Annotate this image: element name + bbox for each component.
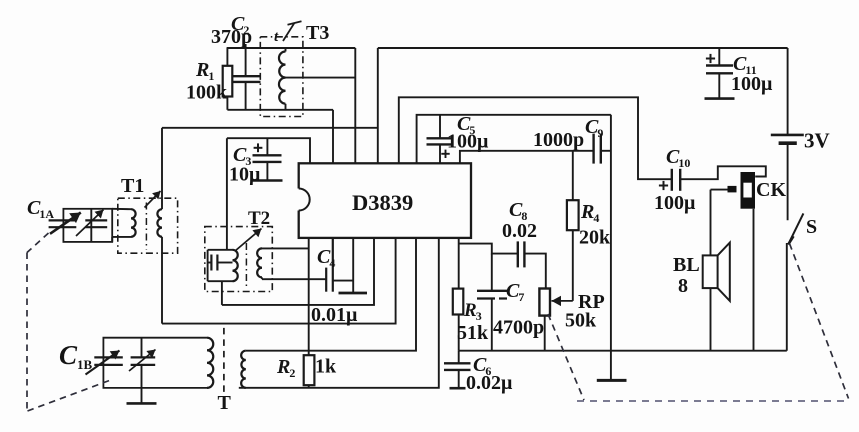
capacitor C10 polarity + bbox=[659, 181, 668, 190]
label C8 bbox=[509, 199, 527, 223]
capacitor C7 bottom lead bbox=[491, 299, 493, 351]
transformer T2 right winding bbox=[257, 248, 262, 277]
wire node vertical right (pin6 net to ground) bbox=[610, 115, 612, 351]
capacitor C3 bottom lead bbox=[266, 162, 268, 180]
transformer T2 right winding bottom stub bbox=[261, 277, 263, 279]
label C3 bbox=[233, 144, 251, 168]
svg-text:BL: BL bbox=[673, 254, 700, 276]
label 20k value of R4 bbox=[579, 227, 611, 249]
svg-text:10μ: 10μ bbox=[229, 164, 261, 186]
battery BT 3V top lead bbox=[787, 48, 789, 134]
wire T1 secondary top vertical bbox=[161, 128, 163, 209]
svg-text:R: R bbox=[463, 300, 477, 321]
potentiometer RP body bbox=[539, 289, 550, 316]
label R4 bbox=[580, 201, 599, 225]
capacitor C7 plates bbox=[477, 291, 507, 299]
svg-text:3: 3 bbox=[476, 309, 482, 323]
svg-text:T2: T2 bbox=[248, 208, 270, 229]
svg-text:R: R bbox=[580, 201, 594, 223]
wire IC pin t1 riser bbox=[227, 138, 310, 163]
svg-text:370p: 370p bbox=[211, 26, 252, 48]
op-amp/IC U1 D3839 body bbox=[297, 163, 472, 238]
battery BT plates bbox=[771, 135, 804, 143]
resistor R4 bottom lead bbox=[572, 230, 574, 301]
capacitor C3 top lead bbox=[266, 138, 268, 155]
label 4700p value of C7 bbox=[493, 317, 544, 339]
label CK bbox=[756, 179, 786, 201]
resistor R2 body bbox=[304, 355, 315, 385]
transformer T1 core (dash-dot) bbox=[145, 203, 147, 250]
capacitor C11 polarity + bbox=[706, 54, 715, 63]
resistor R1 top lead bbox=[226, 48, 228, 66]
capacitor C5 plates bbox=[427, 138, 454, 144]
variable capacitor C1B section1 arrow bbox=[86, 351, 120, 375]
svg-text:1k: 1k bbox=[315, 356, 337, 378]
wire IC pin8 to C9 (1000p line) bbox=[460, 151, 594, 164]
wire IC pin3 vertical bbox=[354, 48, 356, 163]
capacitor C4 right plate / IC pin b2 lead bbox=[332, 238, 334, 292]
label 100u value of C11 bbox=[731, 73, 773, 95]
label 370p value of C2 bbox=[211, 26, 252, 48]
switch S bottom lead bbox=[786, 243, 788, 351]
label BL bbox=[673, 254, 700, 276]
capacitor C11 top lead bbox=[718, 48, 720, 66]
variable capacitor C1A section1 plates bbox=[49, 220, 77, 227]
variable capacitor C1A divider bbox=[90, 209, 92, 242]
capacitor C8 plates bbox=[518, 241, 525, 267]
battery BT bottom lead bbox=[787, 143, 789, 220]
capacitor C11 plates bbox=[706, 66, 733, 74]
jack CK contact arm bbox=[711, 186, 737, 193]
wire b8 node jog to C8 bbox=[459, 244, 518, 254]
transformer T2 core (dash-dot) bbox=[245, 243, 247, 289]
resistor R1 body bbox=[223, 66, 233, 97]
label 100u value of C10 bbox=[654, 192, 696, 214]
capacitor inside T2 plates bbox=[211, 255, 217, 271]
variable capacitor C1B center stem bbox=[141, 338, 143, 403]
label T1 bbox=[121, 175, 144, 197]
svg-text:1A: 1A bbox=[39, 207, 54, 221]
label C11 bbox=[733, 53, 757, 77]
capacitor C5 bottom lead bbox=[439, 144, 441, 163]
label C5 bbox=[457, 113, 475, 137]
label 3V battery value bbox=[804, 129, 830, 153]
label C10 bbox=[666, 146, 690, 170]
label C6 bbox=[473, 354, 491, 378]
svg-text:51k: 51k bbox=[457, 322, 489, 344]
ganged dashed link RP to switch bbox=[548, 314, 584, 400]
variable capacitor C1A section2 arrow bbox=[76, 210, 104, 236]
label C7 bbox=[506, 280, 524, 304]
wire jack contact to speaker bbox=[710, 190, 712, 256]
svg-text:10: 10 bbox=[678, 156, 690, 170]
svg-text:CK: CK bbox=[756, 179, 786, 201]
wire C1A to T1 primary top bbox=[112, 208, 131, 210]
capacitor inside T2 stubs bbox=[208, 262, 233, 264]
transformer T3 winding bbox=[279, 52, 286, 104]
wire IC pin2 vertical bbox=[332, 110, 334, 164]
svg-text:100μ: 100μ bbox=[447, 131, 489, 153]
wire t1 net down to T2 bbox=[226, 138, 228, 250]
capacitor C3 plates bbox=[253, 155, 282, 162]
label 0.02u value of C6 bbox=[466, 372, 513, 394]
capacitor C6 plates bbox=[444, 363, 471, 370]
wire jack sleeve to ground bus bbox=[753, 209, 755, 351]
wire bottom rail (R1/C2/T3 bottom node to IC pin2) bbox=[227, 109, 333, 111]
wire top rail left (R1/C2/T3 top node to IC pin3 net) bbox=[227, 47, 356, 49]
variable capacitor C1B section1 plates bbox=[94, 357, 123, 365]
svg-text:R: R bbox=[276, 356, 290, 378]
svg-text:7: 7 bbox=[518, 290, 524, 304]
variable capacitor C1B section2 plates bbox=[131, 357, 156, 365]
resistor R4 top lead bbox=[572, 151, 574, 200]
svg-text:0.02: 0.02 bbox=[502, 220, 537, 242]
transformer T3 adjustable core symbol bbox=[274, 21, 302, 45]
capacitor C3 polarity + bbox=[254, 143, 263, 152]
capacitor C2 top lead bbox=[245, 44, 247, 76]
wire ground bus bbox=[459, 350, 787, 352]
svg-text:4: 4 bbox=[329, 256, 335, 270]
svg-text:T: T bbox=[218, 392, 232, 414]
svg-text:T1: T1 bbox=[121, 175, 144, 197]
wire C8 to RP top bbox=[524, 254, 545, 289]
wire top supply rail bbox=[378, 47, 788, 49]
wire T1 secondary top to supply rail bbox=[162, 127, 378, 129]
variable capacitor C1A frame bbox=[63, 209, 112, 242]
capacitor C6 bottom lead bbox=[458, 370, 460, 388]
transformer T2 shield box (dash-dot) bbox=[205, 227, 272, 292]
transformer T1 secondary winding bbox=[157, 209, 162, 237]
wire IC pin b5 to T1 secondary bottom bbox=[162, 238, 396, 324]
ground symbol stem bbox=[610, 351, 612, 380]
svg-text:T3: T3 bbox=[306, 22, 329, 44]
jack CK body bbox=[741, 172, 756, 209]
transformer T2 left winding bottom rail bbox=[208, 280, 233, 282]
wire IC pin b7 to R2 bottom rail bbox=[239, 238, 439, 388]
wire C1A to T1 primary bottom bbox=[112, 237, 131, 242]
label C1B bbox=[59, 340, 93, 372]
antenna transformer T core dashed line bbox=[223, 328, 225, 395]
wire IC pin6 riser bbox=[417, 115, 611, 164]
wire IC pin4 vertical (supply) bbox=[377, 48, 379, 163]
transformer T1 adjustable core arrow bbox=[145, 191, 161, 208]
switch S blade bbox=[788, 213, 803, 244]
svg-text:0.01μ: 0.01μ bbox=[311, 304, 358, 326]
resistor R4 body bbox=[567, 200, 579, 230]
wire R4 to RP wiper with arrow bbox=[552, 296, 573, 306]
svg-text:1B: 1B bbox=[77, 357, 93, 372]
wire IC pin b4 to T2 bottom bbox=[222, 238, 374, 305]
wire T3 tap to IC pin3 bbox=[286, 77, 356, 79]
wire IC pin b6 to R2 top rail bbox=[246, 238, 416, 351]
svg-text:20k: 20k bbox=[579, 227, 611, 249]
transformer T1 primary winding bbox=[131, 209, 136, 237]
oscillator coupling coil T secondary bbox=[241, 351, 246, 388]
capacitor C2 plates bbox=[233, 76, 261, 82]
capacitor C6 end bar bbox=[450, 387, 466, 390]
speaker BL cone bbox=[718, 243, 730, 301]
pin b3 end bar bbox=[339, 292, 368, 295]
resistor R2 bottom lead bbox=[308, 385, 310, 388]
transformer T2 left side vertical bbox=[207, 250, 209, 281]
wire T2 left winding bottom vertical bbox=[221, 281, 223, 305]
ground symbol bar bbox=[597, 379, 627, 382]
wire IC pin b1 vertical node bbox=[308, 238, 310, 351]
wire IC pin b8 vertical to R3 bbox=[458, 238, 460, 289]
transformer T2 left winding top rail bbox=[208, 249, 233, 251]
capacitor C5 top lead bbox=[439, 115, 441, 139]
label 0.02 value of C8 bbox=[502, 220, 537, 242]
potentiometer RP bottom lead bbox=[544, 316, 546, 351]
label R3 bbox=[463, 300, 482, 323]
variable capacitor C1B section2 arrow bbox=[129, 350, 156, 372]
resistor R3 bottom lead bbox=[458, 315, 460, 351]
label S bbox=[806, 216, 817, 238]
wire C10 to jack CK tip bbox=[680, 166, 766, 179]
label RP bbox=[578, 291, 605, 313]
svg-text:4700p: 4700p bbox=[493, 317, 544, 339]
svg-text:50k: 50k bbox=[565, 310, 597, 332]
label 1000p value of C9 bbox=[533, 129, 584, 151]
resistor R1 bottom lead bbox=[226, 97, 228, 110]
ganged tuning dashed link C1A-C1B bbox=[27, 233, 112, 411]
wire C4 to IC pin b3 bbox=[333, 280, 353, 282]
transformer T3 winding bottom lead bbox=[285, 104, 287, 110]
svg-text:100μ: 100μ bbox=[731, 73, 773, 95]
label 1k value of R2 bbox=[315, 356, 337, 378]
svg-text:8: 8 bbox=[678, 275, 688, 297]
ground bar below C1B bbox=[127, 402, 157, 405]
svg-text:0.02μ: 0.02μ bbox=[466, 372, 513, 394]
wire T2 right winding bottom to C4 bbox=[262, 278, 326, 280]
wire IC pin5 to C10 (via top) bbox=[399, 97, 672, 179]
label C9 bbox=[585, 116, 603, 140]
label T2 bbox=[248, 208, 270, 229]
capacitor C11 bottom lead bbox=[718, 73, 720, 98]
svg-text:1000p: 1000p bbox=[533, 129, 584, 151]
capacitor C11 ground bar bbox=[705, 97, 735, 100]
wire speaker to ground bus bbox=[710, 288, 712, 351]
svg-text:3V: 3V bbox=[804, 129, 830, 153]
label C1A bbox=[27, 197, 54, 221]
resistor R2 top lead bbox=[308, 351, 310, 356]
svg-text:R: R bbox=[195, 59, 209, 81]
capacitor C5 polarity + bbox=[441, 150, 449, 158]
label R1 bbox=[195, 59, 214, 83]
wire T1 secondary bottom vertical bbox=[161, 237, 163, 324]
svg-text:D3839: D3839 bbox=[352, 190, 413, 215]
label C2 bbox=[231, 13, 249, 37]
transformer T2 left winding bbox=[233, 250, 238, 281]
svg-text:2: 2 bbox=[289, 366, 295, 380]
label 50k value of RP bbox=[565, 310, 597, 332]
dashed gang bus bottom bbox=[577, 400, 849, 402]
ganged dashed link switch S bbox=[790, 244, 849, 399]
label 0.01u value of C4 bbox=[311, 304, 358, 326]
antenna coil on C1B frame bbox=[207, 338, 213, 388]
label D3839 bbox=[352, 190, 413, 215]
label 100u value of C5 bbox=[447, 131, 489, 153]
capacitor C2 bottom lead bbox=[245, 82, 247, 110]
svg-text:4: 4 bbox=[593, 211, 599, 225]
label 100k value of R1 bbox=[186, 82, 228, 104]
capacitor C3 end bar bbox=[253, 179, 283, 182]
resistor R3 body bbox=[453, 289, 464, 315]
variable capacitor C1A section1 arrow bbox=[50, 213, 81, 234]
label 8 speaker impedance bbox=[678, 275, 688, 297]
label 51k value of R3 bbox=[457, 322, 489, 344]
label 10u value of C3 bbox=[229, 164, 261, 186]
label C4 bbox=[317, 246, 335, 270]
capacitor C9 plates bbox=[594, 134, 601, 164]
variable capacitor C1A section2 plates bbox=[85, 220, 107, 227]
wire C9 to right node bbox=[601, 150, 611, 152]
svg-text:100μ: 100μ bbox=[654, 192, 696, 214]
svg-text:S: S bbox=[806, 216, 817, 238]
svg-text:9: 9 bbox=[597, 126, 603, 140]
transformer T2 adjustable core arrow bbox=[235, 229, 262, 252]
capacitor C4 left plate bbox=[325, 268, 327, 292]
transformer T3 shield box (dash-dot) bbox=[260, 37, 303, 117]
capacitor C6 top lead bbox=[458, 351, 460, 364]
wire T2 right winding top to IC pin b1 bbox=[262, 247, 309, 249]
label R2 bbox=[276, 356, 295, 380]
transformer T3 winding top lead bbox=[285, 48, 287, 52]
svg-text:100k: 100k bbox=[186, 82, 228, 104]
label T3 bbox=[306, 22, 329, 44]
svg-text:C: C bbox=[59, 340, 78, 370]
transformer T1 shield box (dash-dot) bbox=[118, 198, 178, 253]
variable capacitor C1B frame bbox=[103, 338, 207, 388]
capacitor C10 plates bbox=[672, 169, 680, 191]
wire IC pin b3 vertical bbox=[352, 238, 354, 292]
label T bbox=[218, 392, 232, 414]
capacitor C7 top lead bbox=[491, 254, 493, 291]
speaker BL magnet body bbox=[703, 255, 718, 288]
